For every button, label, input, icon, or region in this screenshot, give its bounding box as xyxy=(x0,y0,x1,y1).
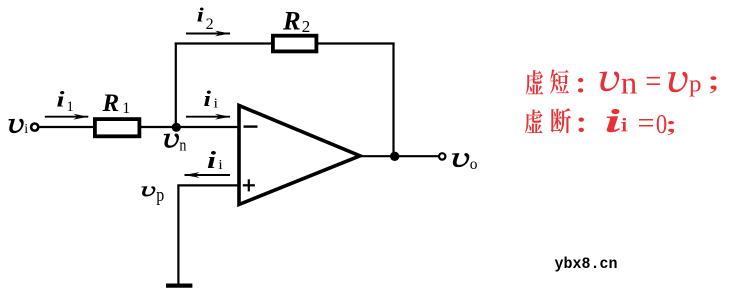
wire op-amp output xyxy=(358,155,439,157)
svg-text:i: i xyxy=(57,86,66,111)
svg-text:=: = xyxy=(638,106,655,139)
wire vp to non-inverting input xyxy=(177,184,237,186)
svg-text:R: R xyxy=(102,90,120,117)
wire vp down to ground xyxy=(177,185,179,283)
label R2 xyxy=(282,6,310,36)
label vn xyxy=(164,134,187,155)
svg-text:ybx8.cn: ybx8.cn xyxy=(555,255,618,273)
wire vi to R1 xyxy=(39,126,94,128)
svg-text:p: p xyxy=(689,72,702,98)
label R1 xyxy=(102,90,131,117)
wire feedback down to output node xyxy=(392,43,394,157)
ground xyxy=(166,284,192,288)
svg-text:i: i xyxy=(197,6,205,27)
svg-text:R: R xyxy=(282,6,301,36)
resistor R2 xyxy=(273,36,317,52)
wire vn up to feedback xyxy=(175,43,177,128)
arrow ii (non-inverting input current) xyxy=(185,172,231,178)
svg-text:2: 2 xyxy=(302,17,311,36)
label vp xyxy=(142,185,164,206)
label vi xyxy=(9,119,28,137)
annotation red line 2: xu duan: ii = 0 xyxy=(525,106,674,139)
plus sign (non-inverting input) xyxy=(243,179,255,191)
svg-text:i: i xyxy=(207,148,216,174)
svg-text:=: = xyxy=(645,64,661,100)
resistor R1 xyxy=(95,119,139,136)
svg-text:n: n xyxy=(621,64,638,100)
arrow ii (inverting input current) xyxy=(186,114,230,120)
terminal vo xyxy=(439,153,445,159)
label vo xyxy=(452,153,477,172)
label ii bottom xyxy=(207,148,223,174)
svg-text:i: i xyxy=(214,97,219,112)
svg-text:2: 2 xyxy=(206,16,214,33)
svg-text:1: 1 xyxy=(122,100,130,117)
label i2 xyxy=(197,6,214,34)
svg-text:p: p xyxy=(156,185,164,206)
svg-text:0: 0 xyxy=(656,108,667,139)
annotation red line 1: xu duan: vn = vp xyxy=(526,64,717,100)
wire R1 to op-amp inverting input xyxy=(141,126,238,128)
wire feedback top right segment xyxy=(316,42,394,44)
svg-text:i: i xyxy=(218,158,223,173)
svg-text:i: i xyxy=(204,86,213,111)
node vn xyxy=(172,123,181,132)
arrow i2 xyxy=(186,31,230,37)
svg-text:1: 1 xyxy=(67,99,74,115)
minus sign (inverting input) xyxy=(244,125,258,127)
svg-text:i: i xyxy=(24,122,28,137)
svg-text:o: o xyxy=(470,156,478,173)
label ii top xyxy=(204,86,219,111)
node output junction xyxy=(390,152,399,161)
svg-text:n: n xyxy=(179,136,186,155)
op-amp U1 xyxy=(239,106,360,205)
label i1 xyxy=(57,86,74,115)
arrow i1 xyxy=(45,114,89,120)
wire feedback top left segment xyxy=(175,42,272,44)
terminal vi xyxy=(31,124,38,131)
